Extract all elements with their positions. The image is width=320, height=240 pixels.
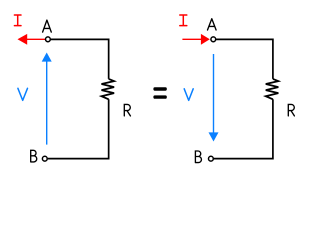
value label R (left circuit) [124,104,130,116]
voltage arrow V (left circuit, pointing up) [42,53,52,145]
current label I (left circuit) [14,15,21,26]
resistor R (left circuit) [102,79,115,99]
node B label (left circuit) [31,150,37,162]
wire: resistor bottom to bottom-left corner and to node B (left circuit) [48,99,109,158]
equivalence sign = [153,87,166,99]
current label I (right circuit) [180,15,187,26]
terminal node A (right circuit) [211,37,216,42]
current arrow I (left circuit, pointing left) [18,34,46,45]
current arrow I (right circuit, pointing right) [182,34,209,45]
node A label (left circuit) [43,20,52,32]
node B label (right circuit) [195,151,201,163]
terminal node B (right circuit) [209,156,214,161]
voltage arrow V (right circuit, pointing down) [209,54,219,142]
resistor R (right circuit) [266,79,279,99]
wire: node A to top-right corner and down to resistor (left circuit) [51,39,109,79]
wire: node A to top-right corner and down to resistor (right circuit) [216,39,273,79]
wire: resistor bottom to bottom corner and to node B (right circuit) [214,99,273,158]
terminal node A (left circuit) [46,37,51,42]
voltage label V (left circuit) [18,88,28,100]
node A label (right circuit) [208,19,217,30]
voltage label V (right circuit) [184,89,193,101]
value label R (right circuit) [288,104,294,116]
terminal node B (left circuit) [42,156,47,161]
